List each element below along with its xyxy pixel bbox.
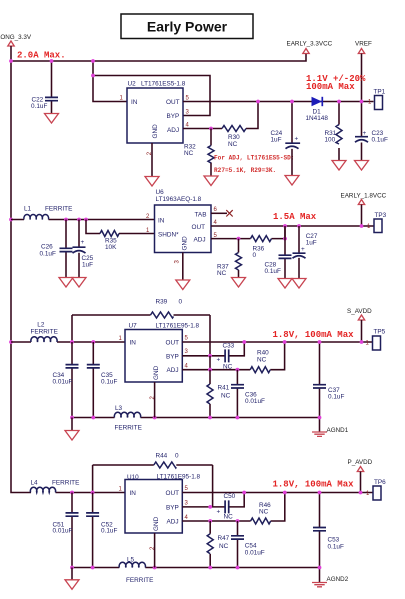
wire R35 branch xyxy=(86,220,155,234)
svg-text:L4: L4 xyxy=(31,479,39,486)
wire U2 ADJ to R30 xyxy=(183,102,258,129)
inductor L5 xyxy=(119,562,145,567)
svg-text:IN: IN xyxy=(130,490,137,497)
svg-text:+: + xyxy=(217,357,221,364)
svg-text:OUT: OUT xyxy=(166,340,180,347)
op-amp U10 regulator box xyxy=(125,480,182,534)
svg-text:0.1uF: 0.1uF xyxy=(31,103,47,110)
capacitor C28 xyxy=(279,255,292,258)
wire C54 branch xyxy=(237,521,239,568)
svg-text:GND: GND xyxy=(153,516,160,531)
svg-text:R27=5.1K, R29=3K.: R27=5.1K, R29=3K. xyxy=(214,167,276,174)
inductor L4 xyxy=(56,492,126,494)
wire C37 branch xyxy=(319,342,321,418)
inductor L3 xyxy=(114,412,140,417)
resistor R47 xyxy=(207,534,213,554)
wire U7 ADJ line xyxy=(182,342,284,370)
signal ground AGND1 xyxy=(319,418,321,432)
junction at 11,342 xyxy=(9,340,13,344)
junction at 285,238.6 xyxy=(283,237,287,241)
junction at 210.2,521 xyxy=(208,519,212,523)
svg-text:P_AVDD: P_AVDD xyxy=(348,459,373,466)
wire left rail down xyxy=(11,61,31,493)
svg-text:0.1uF: 0.1uF xyxy=(101,528,117,535)
wire ground stub left 2 xyxy=(71,568,73,580)
resistor R39 wires xyxy=(72,315,210,356)
svg-text:0: 0 xyxy=(179,299,183,306)
svg-text:U10: U10 xyxy=(127,474,139,481)
junction at 285,226 xyxy=(283,224,287,228)
ground below R31 xyxy=(332,161,346,171)
junction at 238.5,238.6 xyxy=(237,237,241,241)
wire R32 leads xyxy=(210,129,212,177)
svg-text:NC: NC xyxy=(217,270,227,277)
svg-text:BYP: BYP xyxy=(166,354,179,361)
svg-text:FERRITE: FERRITE xyxy=(115,425,142,432)
svg-text:C26: C26 xyxy=(41,243,53,250)
svg-text:For ADJ, LT1761ES5-SD:: For ADJ, LT1761ES5-SD: xyxy=(214,155,294,162)
svg-text:EARLY_1.8VCC: EARLY_1.8VCC xyxy=(341,192,387,199)
junction at 210,369.7 xyxy=(208,368,212,372)
capacitor C36 xyxy=(231,385,244,388)
ground below U2 xyxy=(145,177,159,187)
svg-text:AGND2: AGND2 xyxy=(327,576,349,583)
junction at 211,128.5 xyxy=(209,127,213,131)
svg-text:1.5A Max: 1.5A Max xyxy=(273,212,317,222)
junction at 210.2,506.9 xyxy=(208,505,212,509)
svg-text:U7: U7 xyxy=(129,323,138,330)
resistor R44 wires xyxy=(93,465,213,507)
svg-text:OUT: OUT xyxy=(166,490,180,497)
svg-text:OUT: OUT xyxy=(166,99,180,106)
svg-text:1.8V, 100mA Max: 1.8V, 100mA Max xyxy=(273,480,355,490)
svg-text:ADJ: ADJ xyxy=(194,237,206,244)
junction at 93,61 xyxy=(91,59,95,63)
capacitor C51 xyxy=(66,513,79,516)
wire TAB stub xyxy=(211,212,227,214)
junction at 319.5,492.5 xyxy=(318,491,322,495)
svg-text:IN: IN xyxy=(158,217,165,224)
resistor R35 xyxy=(100,231,119,237)
test point TP6 xyxy=(373,486,381,500)
svg-text:C53: C53 xyxy=(328,537,340,544)
wire U7 OUT rail xyxy=(182,341,372,343)
wire U10 GND pin xyxy=(154,533,156,568)
op-amp U7 regulator box xyxy=(125,330,182,383)
svg-text:TP6: TP6 xyxy=(374,479,386,486)
svg-text:100mA Max: 100mA Max xyxy=(306,82,355,92)
capacitor C24 polarized xyxy=(285,143,300,149)
wire U2 OUT rail xyxy=(183,101,374,103)
wire U10 OUT rail xyxy=(182,492,372,494)
resistor R31 xyxy=(336,125,342,145)
svg-text:0.1uF: 0.1uF xyxy=(372,137,388,144)
svg-text:GND: GND xyxy=(153,365,160,380)
svg-text:ADJ: ADJ xyxy=(167,519,179,526)
capacitor C50 xyxy=(225,500,229,513)
svg-text:BYP: BYP xyxy=(166,504,179,511)
svg-text:+: + xyxy=(301,246,305,253)
wire U2 GND pin xyxy=(151,143,153,177)
junction at 361.5,342 xyxy=(360,340,364,344)
capacitor C23 polarized xyxy=(355,137,368,143)
junction at 237.5,521 xyxy=(236,519,240,523)
svg-text:LT1761ES5-1.8: LT1761ES5-1.8 xyxy=(141,81,186,88)
wire C26 branch xyxy=(65,220,67,278)
svg-text:TP5: TP5 xyxy=(374,329,386,336)
junction at 237.5,567.5 xyxy=(236,566,240,570)
svg-text:TP3: TP3 xyxy=(375,212,387,219)
svg-text:R41: R41 xyxy=(218,385,230,392)
svg-text:FERRITE: FERRITE xyxy=(45,206,72,213)
svg-text:LT1963AEQ-1.8: LT1963AEQ-1.8 xyxy=(156,196,202,203)
junction at 319.5,342 xyxy=(318,340,322,344)
svg-text:TP1: TP1 xyxy=(374,89,386,96)
capacitor C37 xyxy=(313,385,326,388)
svg-text:R44: R44 xyxy=(156,453,168,460)
resistor R30 xyxy=(222,126,246,132)
wire VREF to output rail xyxy=(361,54,363,137)
svg-text:FERRITE: FERRITE xyxy=(126,577,153,584)
junction at 72,417.5 xyxy=(70,416,74,420)
capacitor C26 xyxy=(60,248,73,251)
inductor L1 xyxy=(11,219,155,221)
junction at 299,226 xyxy=(297,224,301,228)
wire U7 BYP to C33 xyxy=(182,342,244,356)
power symbol EARLY_3.3VCC xyxy=(303,49,309,54)
junction at 51.5,61 xyxy=(50,59,54,63)
ground below U6 xyxy=(176,280,190,290)
junction at 210,355.8 xyxy=(208,354,212,358)
diode D1 xyxy=(312,97,323,106)
resistor R40 xyxy=(250,367,270,373)
svg-text:0.01uF: 0.01uF xyxy=(245,398,265,405)
wire S_AVDD to rail xyxy=(361,320,363,342)
svg-text:C33: C33 xyxy=(223,343,235,350)
wire analog ground bus xyxy=(72,417,320,419)
capacitor C54 xyxy=(231,536,244,539)
resistor R44 xyxy=(154,462,177,468)
svg-text:0.1uF: 0.1uF xyxy=(40,250,56,257)
capacitor C33 xyxy=(225,349,229,362)
svg-text:LT1761E95-1.8: LT1761E95-1.8 xyxy=(156,323,200,330)
resistor R37 xyxy=(236,253,242,271)
wire C34 branch xyxy=(71,342,73,418)
power symbol LONG_3.3V xyxy=(8,41,14,46)
wire C22 branch xyxy=(51,61,53,114)
junction at 361.5,101.5 xyxy=(360,100,364,104)
wire U6 GND pin xyxy=(182,253,184,281)
svg-text:EARLY_3.3VCC: EARLY_3.3VCC xyxy=(287,41,333,48)
svg-text:NC: NC xyxy=(221,393,231,400)
junction at 258,101.5 xyxy=(256,100,260,104)
junction at 92.6,567.5 xyxy=(91,566,95,570)
title block Early Power xyxy=(121,14,253,39)
junction at 210,417.5 xyxy=(208,416,212,420)
power symbol S_AVDD xyxy=(358,315,364,320)
svg-text:0.1uF: 0.1uF xyxy=(328,544,344,551)
power symbol P_AVDD xyxy=(357,467,363,472)
test point TP3 xyxy=(374,219,382,233)
wire U10 BYP to C50 xyxy=(182,493,244,507)
svg-text:0: 0 xyxy=(175,453,179,460)
svg-text:NC: NC xyxy=(259,509,269,516)
svg-text:Early Power: Early Power xyxy=(147,19,228,35)
junction at 154.6,417.5 xyxy=(153,416,157,420)
junction at 244.3,342 xyxy=(242,340,246,344)
wire C28 branch xyxy=(284,226,286,279)
ground below C24 xyxy=(285,176,299,186)
capacitor C53 xyxy=(313,528,326,531)
svg-text:GND: GND xyxy=(182,236,189,251)
svg-text:C50: C50 xyxy=(224,493,236,500)
svg-text:C54: C54 xyxy=(245,542,257,549)
wire R31 branch xyxy=(338,102,340,161)
ground below C27 xyxy=(292,279,306,289)
signal ground AGND2 xyxy=(319,568,321,583)
junction at 72,342 xyxy=(70,340,74,344)
test point TP5 xyxy=(373,336,381,350)
svg-text:ADJ: ADJ xyxy=(167,127,179,134)
junction at 339,101.5 xyxy=(337,100,341,104)
junction at 244.2,492.5 xyxy=(242,491,246,495)
wire C36 branch xyxy=(236,370,238,418)
wire LONG_3.3V rail top xyxy=(11,46,306,61)
wire EARLY_1.8VCC to rail xyxy=(361,205,363,227)
wire C27 branch xyxy=(298,226,300,279)
svg-text:R39: R39 xyxy=(156,299,168,306)
no-connect X on TAB xyxy=(226,210,232,216)
svg-text:U2: U2 xyxy=(128,81,137,88)
svg-text:ADJ: ADJ xyxy=(167,367,179,374)
resistor R41 xyxy=(207,384,213,404)
svg-text:IN: IN xyxy=(131,99,138,106)
junction at 72,492.5 xyxy=(70,491,74,495)
ground below bus xyxy=(65,431,79,441)
junction at 292,101.5 xyxy=(290,100,294,104)
svg-text:SHDN*: SHDN* xyxy=(158,231,179,238)
svg-text:+: + xyxy=(217,509,221,516)
svg-text:0.01uF: 0.01uF xyxy=(245,550,265,557)
svg-text:OUT: OUT xyxy=(192,224,206,231)
resistor R36 xyxy=(251,236,272,242)
svg-text:10K: 10K xyxy=(105,244,117,251)
ground below bus 2 xyxy=(65,580,79,590)
resistor R39 xyxy=(151,312,174,318)
svg-text:GND: GND xyxy=(152,124,159,139)
wire C52 branch xyxy=(92,493,94,568)
svg-text:0: 0 xyxy=(253,252,257,259)
ground below C22 xyxy=(45,114,59,124)
svg-text:VREF: VREF xyxy=(355,41,372,48)
svg-text:1N4148: 1N4148 xyxy=(306,115,329,122)
svg-text:AGND1: AGND1 xyxy=(327,427,349,434)
power symbol VREF xyxy=(358,49,364,54)
svg-text:FERRITE: FERRITE xyxy=(31,328,58,335)
svg-text:R30: R30 xyxy=(228,134,240,141)
ground below C25 xyxy=(72,278,86,288)
wire U6 ADJ to R36 xyxy=(211,226,285,239)
wire C53 branch xyxy=(319,493,321,568)
wire U6 OUT rail xyxy=(211,225,374,227)
svg-text:L1: L1 xyxy=(24,206,32,213)
test point TP1 xyxy=(375,96,383,110)
wire ground stub left xyxy=(71,418,73,431)
wire U7 GND pin xyxy=(154,382,156,418)
svg-text:0.01uF: 0.01uF xyxy=(53,379,73,386)
ground below C28 xyxy=(278,279,292,289)
wire analog ground bus 2 xyxy=(72,567,320,569)
junction at 93.3,417.5 xyxy=(91,416,95,420)
power symbol EARLY_1.8VCC xyxy=(358,200,364,205)
junction at 72,567.5 xyxy=(70,566,74,570)
svg-text:100: 100 xyxy=(325,137,336,144)
wire C24 branch xyxy=(291,102,293,176)
capacitor C25 polarized xyxy=(73,247,86,253)
junction at 93.3,342 xyxy=(91,340,95,344)
svg-text:0.01uF: 0.01uF xyxy=(53,528,73,535)
svg-text:0.1uF: 0.1uF xyxy=(101,379,117,386)
capacitor C35 xyxy=(87,365,100,368)
wire U10 ADJ line xyxy=(182,493,284,522)
inductor L2 xyxy=(11,341,125,343)
capacitor C52 xyxy=(86,513,99,516)
op-amp U6 regulator box xyxy=(155,205,212,253)
junction at 11,219.5 xyxy=(9,218,13,222)
svg-text:NC: NC xyxy=(219,543,229,550)
junction at 79,219.5 xyxy=(77,218,81,222)
junction at 360.5,492.5 xyxy=(359,491,363,495)
junction at 284.8,492.5 xyxy=(283,491,287,495)
svg-text:+: + xyxy=(295,136,299,143)
svg-text:L5: L5 xyxy=(127,556,135,563)
svg-text:+: + xyxy=(81,239,85,246)
capacitor C27 polarized xyxy=(293,253,306,258)
ground below C23 xyxy=(355,161,369,171)
junction at 154.6,567.5 xyxy=(153,566,157,570)
wire C35 branch xyxy=(92,342,94,418)
wire C51 branch xyxy=(71,493,73,568)
wire C23 lower lead xyxy=(361,143,363,161)
svg-text:L3: L3 xyxy=(115,405,123,412)
svg-text:1uF: 1uF xyxy=(82,262,93,269)
junction at 237.4,417.5 xyxy=(236,416,240,420)
svg-text:NC: NC xyxy=(228,141,238,148)
resistor R47 leads xyxy=(209,521,211,568)
wire R37 leads xyxy=(238,239,240,278)
svg-text:R40: R40 xyxy=(257,350,269,357)
resistor R46 xyxy=(251,518,271,524)
capacitor C34 xyxy=(66,365,79,368)
junction at 361.5,226 xyxy=(360,224,364,228)
svg-text:BYP: BYP xyxy=(167,113,180,120)
junction at 284.6,342 xyxy=(283,340,287,344)
svg-text:IN: IN xyxy=(130,340,137,347)
ground below R32 xyxy=(204,176,218,186)
svg-text:1uF: 1uF xyxy=(306,240,317,247)
wire U2 IN branch xyxy=(93,61,127,102)
junction at 92.6,492.5 xyxy=(91,491,95,495)
svg-text:S_AVDD: S_AVDD xyxy=(347,308,372,315)
junction at 11,61 xyxy=(9,59,13,63)
junction at 210.2,567.5 xyxy=(208,566,212,570)
capacitor C22 xyxy=(45,97,58,100)
svg-text:FERRITE: FERRITE xyxy=(52,479,79,486)
svg-text:0.1uF: 0.1uF xyxy=(265,268,281,275)
wire P_AVDD to rail xyxy=(360,472,362,493)
svg-text:NC: NC xyxy=(184,150,194,157)
svg-text:1uF: 1uF xyxy=(271,137,282,144)
svg-text:2.0A Max.: 2.0A Max. xyxy=(17,51,66,61)
resistor R32 xyxy=(208,146,214,164)
svg-text:+: + xyxy=(363,130,367,137)
junction at 86,219.5 xyxy=(84,218,88,222)
ground below C26 xyxy=(59,278,73,288)
svg-text:NC: NC xyxy=(224,514,234,521)
ground below R37 xyxy=(232,278,246,288)
svg-text:LONG_3.3V: LONG_3.3V xyxy=(0,34,32,41)
junction at 93,75.5 xyxy=(91,74,95,78)
wire C25 branch xyxy=(78,220,80,278)
svg-text:R47: R47 xyxy=(218,535,230,542)
svg-text:0.1uF: 0.1uF xyxy=(328,394,344,401)
svg-text:TAB: TAB xyxy=(195,212,207,219)
wire BYP junction down xyxy=(209,356,211,370)
resistor R41 leads xyxy=(209,370,211,418)
svg-text:1.8V, 100mA Max: 1.8V, 100mA Max xyxy=(273,330,355,340)
wire BYP loop xyxy=(93,76,210,116)
junction at 66,219.5 xyxy=(64,218,68,222)
junction at 237.4,369.7 xyxy=(236,368,240,372)
svg-text:LT1761E95-1.8: LT1761E95-1.8 xyxy=(157,473,201,480)
op-amp U2 regulator box xyxy=(127,88,183,143)
svg-text:NC: NC xyxy=(257,357,267,364)
